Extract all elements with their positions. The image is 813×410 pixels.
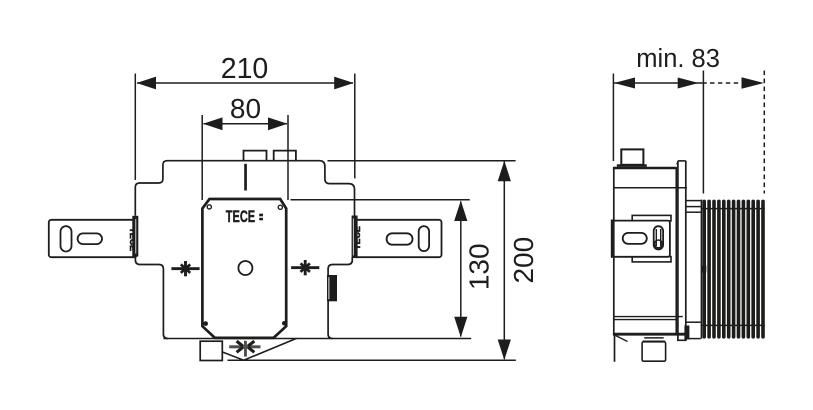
right bracket mounting bar <box>352 216 358 259</box>
right bracket vertical slot <box>419 226 429 251</box>
side view division line <box>614 187 687 189</box>
housing right edge upper <box>354 189 356 216</box>
right edge connector <box>327 275 337 301</box>
side view top box <box>621 149 643 164</box>
side view left leg <box>614 334 616 362</box>
dimension 130 line <box>460 202 462 337</box>
plate screw top-left <box>207 205 211 209</box>
side view body top edge thick <box>613 167 676 169</box>
dimension min83 dashed continuation <box>710 82 741 84</box>
dimension 130 arrow bottom <box>454 317 467 338</box>
svg-text:min. 83: min. 83 <box>636 45 720 73</box>
dimension 210 extension line right <box>354 74 356 179</box>
svg-text:80: 80 <box>230 93 261 124</box>
right fixing point marker <box>291 260 319 275</box>
side view lower band lines <box>614 316 683 318</box>
dimension min83 arrow dashed end <box>742 77 764 88</box>
side view leg strut diagonal <box>616 336 628 342</box>
svg-text:200: 200 <box>508 237 539 284</box>
side view body bottom edge thick <box>613 333 686 336</box>
dimension 200 arrow top <box>498 161 511 182</box>
svg-text:130: 130 <box>463 243 494 290</box>
reference line dashed <box>763 71 765 194</box>
top connection box left <box>244 151 267 161</box>
dimension min83 arrow left <box>614 78 635 89</box>
sleeve clip nub <box>702 266 706 273</box>
flange to sleeve connector lines top <box>686 200 701 202</box>
dimension 130 arrow top <box>454 201 467 222</box>
plate screw bottom-right <box>282 321 287 326</box>
side bracket bottom tab <box>632 257 671 262</box>
side view flange plate <box>677 161 679 341</box>
dimension 80 line <box>204 123 288 125</box>
side bracket top tab <box>632 215 671 221</box>
sleeve left edge <box>700 200 702 339</box>
bottom star marker <box>229 341 260 357</box>
center mark below top edge <box>244 164 247 191</box>
dimension 200 extension line bottom <box>228 359 516 361</box>
left bracket plate <box>49 220 137 257</box>
housing right edge below bracket <box>328 257 352 339</box>
dimension 80 extension line left <box>201 115 203 200</box>
svg-text:210: 210 <box>221 53 269 85</box>
dimension 80 arrow left <box>203 117 223 130</box>
left bracket vertical slot <box>61 226 72 251</box>
center cover plate octagon <box>202 199 286 338</box>
left bracket horizontal slot <box>78 233 102 244</box>
side view plate under top box <box>617 164 647 167</box>
dimension min83 extension line left <box>612 74 614 162</box>
plate screw bottom-left <box>203 321 208 326</box>
dimension 210 extension line left <box>134 74 136 181</box>
housing outline front view <box>135 161 354 216</box>
dimension 200 extension line top <box>328 160 516 162</box>
dimension 210 line <box>137 82 353 84</box>
dimension 80 arrow right <box>268 117 288 130</box>
protection sleeve corrugated <box>702 200 764 339</box>
side view body <box>614 168 677 334</box>
side view flange foot dark <box>684 326 689 340</box>
bottom outlet box <box>200 341 222 360</box>
svg-text:TECE: TECE <box>226 208 256 226</box>
bottom V lines <box>222 338 296 360</box>
side view outlet box <box>642 342 666 361</box>
side view outlet neck <box>644 337 664 339</box>
side bracket body <box>613 221 670 257</box>
side bracket mounting bar black <box>611 220 615 258</box>
body to flange connector line <box>676 163 678 165</box>
left fixing point marker <box>171 261 199 276</box>
dimension min83 arrow right <box>678 78 699 89</box>
dimension 210 arrow right <box>334 77 354 90</box>
dimension 130 extension line top <box>291 199 470 201</box>
dimension 200 line <box>503 162 505 360</box>
top connection box right <box>274 151 296 161</box>
flange to sleeve connector lines bottom <box>686 321 701 323</box>
dimension 210 arrow left <box>137 77 157 90</box>
left bracket mounting bar <box>132 216 138 257</box>
sleeve band lines <box>701 208 765 210</box>
right bracket horizontal slot <box>387 233 413 244</box>
dimension min83 line solid <box>614 82 707 84</box>
side bracket horizontal slot <box>623 233 647 244</box>
plate center hole <box>238 261 252 275</box>
plate screw top-right <box>278 205 282 209</box>
reference line wall front solid <box>702 71 704 194</box>
housing bottom line merged with 130 extension bottom <box>163 338 471 340</box>
dimension 80 extension line right <box>287 115 289 200</box>
right bracket plate <box>353 220 442 257</box>
side bracket vertical slot with screw <box>654 226 663 249</box>
housing left edge below bracket <box>135 257 168 339</box>
dimension 200 arrow bottom <box>498 340 511 361</box>
